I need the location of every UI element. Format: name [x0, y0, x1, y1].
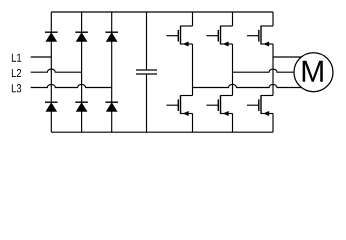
wire input L2 — [31, 69, 82, 72]
diode D4 (lower) — [45, 102, 58, 111]
label L3 — [12, 84, 21, 92]
diode D6 (lower) — [105, 102, 118, 111]
capacitor C1 — [136, 70, 157, 74]
wire inverter leg 3 middle — [272, 44, 274, 96]
label L1 — [12, 54, 21, 62]
wire rectifier leg 3 — [111, 12, 113, 132]
transistor Q3 (upper) — [247, 26, 273, 47]
diode D3 (upper) — [105, 32, 118, 41]
diode D5 (lower) — [75, 102, 88, 111]
three-phase rectifier / DC-link / inverter / motor schematic — [0, 0, 346, 145]
motor M1 — [294, 53, 333, 92]
diode D2 (upper) — [75, 32, 88, 41]
transistor Q6 (lower) — [247, 95, 273, 116]
wire inverter leg 3 source lower — [272, 114, 274, 133]
wire DC- bottom rail — [51, 131, 273, 133]
wire DC+ top rail — [51, 11, 273, 13]
wire input L1 — [31, 56, 52, 58]
wire rectifier leg 1 — [50, 12, 52, 132]
wire rectifier leg 2 — [81, 12, 83, 132]
transistor Q1 (upper) — [167, 26, 193, 47]
wire inverter leg 2 middle — [232, 44, 234, 96]
wire phase U output — [273, 56, 303, 58]
wire input L3 — [31, 84, 112, 87]
wire inverter leg 1 drain upper — [192, 12, 194, 26]
wire inverter leg 2 drain upper — [232, 12, 234, 26]
label L2 — [12, 69, 21, 77]
wire inverter leg 2 source lower — [232, 114, 234, 133]
wire phase V output — [233, 69, 296, 72]
wire inverter leg 1 source lower — [192, 114, 194, 133]
transistor Q4 (lower) — [167, 95, 193, 116]
wire inverter leg 1 middle — [192, 44, 194, 96]
wire inverter leg 3 drain upper — [272, 12, 274, 26]
wire capacitor leg upper — [146, 12, 148, 70]
wire phase W output — [193, 84, 303, 87]
transistor Q2 (upper) — [207, 26, 233, 47]
wire capacitor leg lower — [146, 74, 148, 132]
transistor Q5 (lower) — [207, 95, 233, 116]
diode D1 (upper) — [45, 32, 58, 41]
